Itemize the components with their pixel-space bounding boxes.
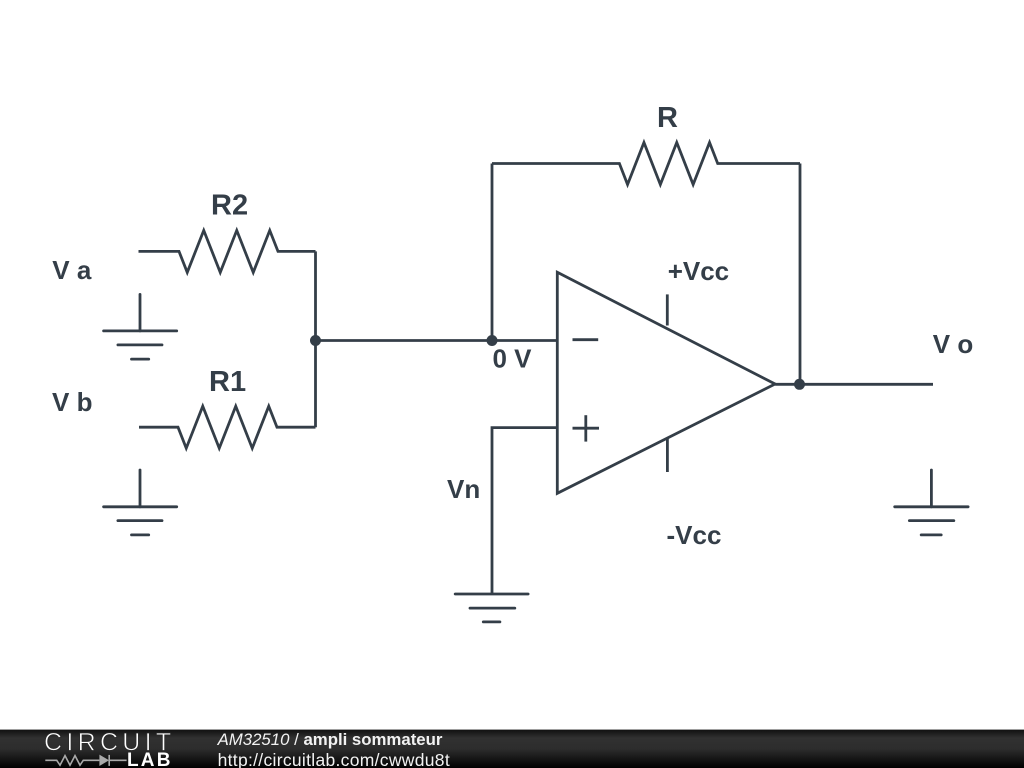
- wire node A to inverting input: [316, 339, 558, 342]
- op-amp -Vcc pin: [666, 439, 669, 473]
- resistor R2: [139, 230, 316, 272]
- wire junction vertical R2 to R1: [314, 251, 317, 427]
- svg-text:V b: V b: [52, 387, 92, 417]
- svg-text:V a: V a: [52, 255, 92, 285]
- svg-text:+Vcc: +Vcc: [668, 256, 729, 286]
- wire output: [775, 383, 933, 386]
- logo squiggle resistor-diode: [45, 755, 126, 766]
- ground G3 (Vn): [455, 594, 528, 622]
- ground G4 (Vo): [895, 470, 968, 535]
- op-amp plus sign: [573, 427, 600, 430]
- op-amp minus sign: [573, 338, 599, 341]
- op-amp U1 triangle: [557, 272, 775, 493]
- resistor R1: [139, 406, 316, 448]
- svg-text:R: R: [657, 102, 678, 134]
- wire non-inverting input from Vn: [492, 428, 557, 594]
- wire feedback left vertical: [491, 164, 494, 341]
- resistor R: [492, 143, 800, 185]
- wire feedback right vertical: [799, 164, 802, 385]
- node output dot: [794, 379, 805, 390]
- node 0V dot: [487, 335, 498, 346]
- svg-text:0 V: 0 V: [493, 343, 533, 373]
- footer bar: [0, 730, 1024, 768]
- node A junction dot: [310, 335, 321, 346]
- op-amp +Vcc pin: [666, 294, 669, 325]
- svg-text:AM32510 / ampli sommateur: AM32510 / ampli sommateur: [217, 730, 443, 749]
- ground G1 (Va): [104, 294, 177, 359]
- svg-text:R2: R2: [211, 190, 248, 222]
- svg-text:http://circuitlab.com/cwwdu8t: http://circuitlab.com/cwwdu8t: [218, 750, 450, 768]
- svg-text:V o: V o: [933, 329, 973, 359]
- ground G2 (Vb): [104, 470, 177, 535]
- svg-text:LAB: LAB: [127, 750, 173, 768]
- svg-text:R1: R1: [209, 366, 246, 398]
- svg-text:Vn: Vn: [447, 474, 480, 504]
- svg-text:-Vcc: -Vcc: [667, 520, 722, 550]
